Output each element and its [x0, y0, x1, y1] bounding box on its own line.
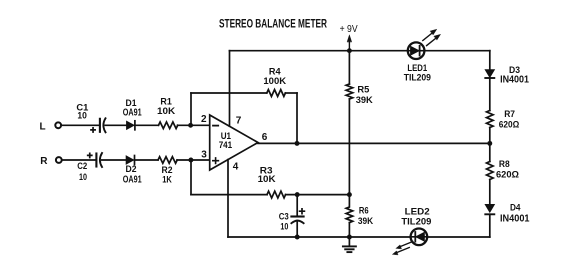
- wire R4 to drop: [285, 92, 297, 94]
- wire R row: terminal to C2: [62, 159, 95, 161]
- svg-text:3: 3: [201, 150, 207, 161]
- wire pin 7 to top rail: [229, 51, 231, 127]
- capacitor C3: [279, 195, 305, 237]
- node R input terminal: [56, 157, 62, 163]
- node junction output/right column: [487, 141, 492, 146]
- svg-text:10K: 10K: [258, 174, 276, 185]
- svg-text:D4: D4: [510, 203, 521, 214]
- svg-text:4: 4: [233, 162, 239, 173]
- node junction C3 top: [295, 192, 300, 197]
- diode D4 IN4001: [485, 203, 530, 225]
- svg-text:10K: 10K: [157, 106, 175, 117]
- wire R5 to R6 column: [348, 99, 350, 195]
- svg-text:10: 10: [77, 111, 87, 122]
- wire R4 drop to output row: [296, 93, 298, 143]
- svg-text:R7: R7: [504, 109, 515, 120]
- wire bottom rail: [228, 236, 490, 238]
- svg-text:6: 6: [262, 132, 268, 143]
- diode D1 OA91: [123, 98, 142, 130]
- svg-text:L: L: [40, 121, 46, 132]
- svg-text:7: 7: [236, 116, 242, 127]
- svg-text:620Ω: 620Ω: [496, 169, 519, 180]
- resistor R7: [487, 109, 520, 131]
- svg-text:R5: R5: [357, 84, 370, 95]
- wire C1 to D1: [105, 124, 126, 126]
- op-amp U1 741: [201, 114, 268, 172]
- LED1 TIL209: [404, 29, 441, 83]
- svg-text:STEREO BALANCE METER: STEREO BALANCE METER: [219, 16, 327, 30]
- wire pin 4 to bottom rail: [227, 160, 229, 237]
- svg-text:10: 10: [79, 172, 87, 183]
- wire L row: terminal to C1: [62, 124, 99, 126]
- node junction R4/output: [295, 141, 300, 146]
- svg-text:1K: 1K: [162, 174, 172, 185]
- wire R6 to bottom rail: [348, 223, 350, 237]
- wire right column top: [489, 51, 491, 70]
- node junction +9V rail: [347, 48, 352, 53]
- node junction pin2: [188, 123, 193, 128]
- capacitor C2: [77, 153, 102, 183]
- ground: [343, 237, 356, 252]
- capacitor C1: [76, 102, 105, 132]
- resistor R8: [487, 159, 520, 181]
- wire R1 to op-amp pin 2: [178, 124, 210, 126]
- svg-text:C2: C2: [77, 161, 87, 172]
- wire R3 row left: [191, 194, 267, 196]
- node junction pin3: [188, 158, 193, 163]
- wire R8 to D4: [489, 180, 491, 205]
- resistor R6: [346, 195, 373, 227]
- resistor R2: [158, 157, 177, 186]
- wire R4 row left: [191, 92, 267, 94]
- svg-text:100K: 100K: [263, 76, 286, 87]
- svg-text:R6: R6: [359, 205, 369, 216]
- wire D3 to R7: [489, 78, 491, 111]
- svg-text:LED2: LED2: [405, 206, 430, 216]
- wire pin3 junction down to R3 row: [190, 160, 192, 195]
- wire D2 to R2: [135, 159, 159, 161]
- svg-text:IN4001: IN4001: [500, 213, 530, 224]
- svg-text:39K: 39K: [358, 216, 373, 227]
- wire pin2 junction up to R4 row: [190, 93, 192, 125]
- svg-text:R8: R8: [499, 159, 510, 170]
- svg-text:TIL209: TIL209: [404, 73, 431, 84]
- svg-text:R: R: [40, 156, 48, 167]
- node junction bottom rail / ground: [347, 235, 352, 240]
- wire top rail: [230, 50, 490, 52]
- wire supply column top to R5: [348, 51, 350, 84]
- svg-text:2: 2: [201, 114, 207, 125]
- svg-text:39K: 39K: [356, 95, 373, 106]
- svg-text:10: 10: [280, 222, 288, 233]
- svg-text:741: 741: [219, 140, 233, 151]
- node junction C3 bottom: [295, 235, 300, 240]
- node junction R3/R6 column: [347, 192, 352, 197]
- wire D4 to bottom rail: [489, 214, 491, 237]
- diode D2 OA91: [123, 156, 142, 186]
- svg-text:TIL209: TIL209: [401, 216, 431, 227]
- node L input terminal: [55, 122, 61, 128]
- resistor R5: [346, 84, 373, 106]
- wire output row pin6: [258, 142, 490, 144]
- svg-text:+ 9V: + 9V: [340, 24, 358, 35]
- power +9V arrow: [340, 24, 358, 51]
- wire R2 to op-amp pin 3: [177, 159, 210, 161]
- wire R7 to R8: [489, 128, 491, 162]
- svg-text:IN4001: IN4001: [500, 75, 529, 86]
- svg-text:OA91: OA91: [123, 108, 142, 119]
- wire D1 to R1: [135, 124, 159, 126]
- diode D3 IN4001: [485, 65, 529, 86]
- wire C2 to D2: [102, 159, 126, 161]
- resistor R1: [157, 97, 178, 129]
- resistor R3: [258, 165, 286, 198]
- svg-text:OA91: OA91: [123, 174, 142, 185]
- svg-text:620Ω: 620Ω: [499, 120, 520, 131]
- svg-text:LED1: LED1: [407, 63, 427, 73]
- wire R3 to supply column: [286, 194, 350, 196]
- LED2 TIL209: [393, 206, 432, 254]
- resistor R4: [263, 67, 286, 97]
